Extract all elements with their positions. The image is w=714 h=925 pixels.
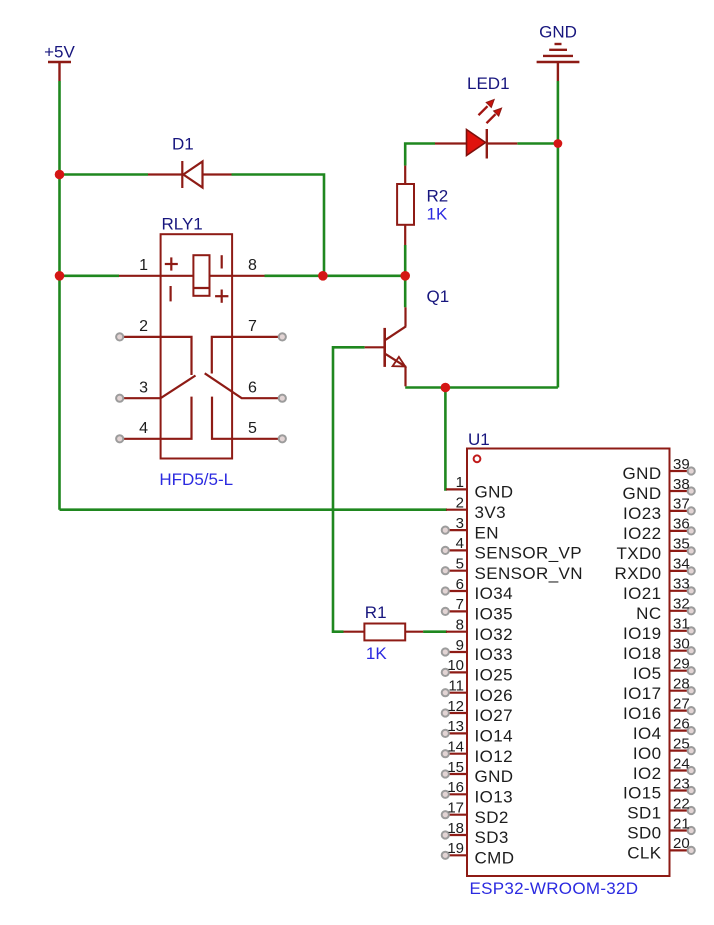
U1 pin 1 GND — [446, 474, 513, 501]
svg-text:1K: 1K — [366, 644, 387, 663]
U1 pin 10 IO25 — [442, 657, 513, 684]
svg-text:25: 25 — [673, 735, 690, 752]
U1 pin 9 IO33 — [442, 637, 513, 664]
svg-text:5: 5 — [248, 420, 257, 437]
svg-text:IO4: IO4 — [633, 724, 662, 743]
wire D1 right — [232, 175, 325, 276]
svg-text:2: 2 — [456, 495, 464, 512]
svg-text:8: 8 — [456, 617, 464, 634]
svg-text:14: 14 — [447, 739, 464, 756]
svg-text:18: 18 — [447, 820, 464, 837]
junction D1/pin8 — [318, 271, 328, 281]
svg-text:D1: D1 — [172, 135, 194, 154]
svg-text:24: 24 — [673, 755, 690, 772]
svg-text:SD3: SD3 — [475, 828, 509, 847]
svg-text:22: 22 — [673, 795, 690, 812]
svg-text:10: 10 — [447, 657, 464, 674]
svg-text:36: 36 — [673, 516, 690, 533]
svg-text:IO13: IO13 — [475, 788, 513, 807]
svg-text:26: 26 — [673, 715, 690, 732]
svg-text:16: 16 — [447, 779, 464, 796]
svg-text:IO27: IO27 — [475, 706, 513, 725]
svg-text:15: 15 — [447, 759, 464, 776]
wire collector rail right — [557, 144, 560, 388]
U1 pin 22 SD1 — [627, 795, 695, 822]
svg-text:CLK: CLK — [627, 844, 662, 863]
resistor R2 — [397, 166, 448, 245]
U1 pin 13 IO14 — [442, 718, 513, 745]
wire +5V rail vertical — [58, 81, 61, 510]
junction R2/collector — [400, 271, 410, 281]
svg-text:EN: EN — [475, 523, 499, 542]
U1 pin 28 IO17 — [623, 676, 695, 703]
relay pin 4 — [116, 397, 191, 443]
svg-text:31: 31 — [673, 616, 690, 633]
U1 pin 5 SENSOR_VN — [442, 556, 583, 583]
IC U1 body — [467, 430, 670, 876]
wire base net — [333, 347, 365, 631]
svg-text:2: 2 — [139, 318, 148, 335]
svg-text:IO5: IO5 — [633, 664, 662, 683]
U1 pin 23 IO15 — [623, 775, 695, 802]
svg-text:GND: GND — [475, 767, 514, 786]
svg-text:34: 34 — [673, 556, 690, 573]
wire D1 left — [60, 173, 149, 176]
wire pin1 row — [60, 274, 120, 277]
svg-text:IO34: IO34 — [475, 584, 513, 603]
svg-text:IO33: IO33 — [475, 645, 513, 664]
relay pin 7 — [212, 318, 286, 374]
relay pin 6 — [205, 373, 286, 402]
svg-text:IO17: IO17 — [623, 684, 661, 703]
svg-text:13: 13 — [447, 718, 464, 735]
svg-text:SENSOR_VP: SENSOR_VP — [475, 544, 583, 563]
svg-text:5: 5 — [456, 556, 464, 573]
power +5V — [44, 43, 75, 82]
wire pin8 row — [265, 274, 406, 277]
svg-text:IO2: IO2 — [633, 764, 662, 783]
U1 pin 27 IO16 — [623, 695, 695, 722]
U1 pin 8 IO32 — [446, 617, 513, 644]
U1 pin 18 SD3 — [442, 820, 509, 847]
U1 pin 3 EN — [442, 515, 499, 542]
U1 pin 29 IO5 — [633, 656, 695, 683]
svg-text:23: 23 — [673, 775, 690, 792]
relay RLY1 — [161, 215, 233, 459]
svg-text:29: 29 — [673, 656, 690, 673]
svg-text:SENSOR_VN: SENSOR_VN — [475, 564, 583, 583]
svg-text:7: 7 — [248, 318, 257, 335]
U1 pin 31 IO19 — [623, 616, 695, 643]
relay coil — [193, 255, 209, 296]
svg-text:35: 35 — [673, 536, 690, 553]
svg-text:IO16: IO16 — [623, 704, 661, 723]
svg-text:Q1: Q1 — [427, 287, 450, 306]
svg-text:3: 3 — [139, 380, 148, 397]
svg-text:RLY1: RLY1 — [162, 215, 203, 234]
svg-text:TXD0: TXD0 — [616, 544, 661, 563]
svg-text:IO18: IO18 — [623, 644, 661, 663]
svg-text:6: 6 — [456, 576, 464, 593]
svg-text:IO19: IO19 — [623, 624, 661, 643]
svg-text:ESP32-WROOM-32D: ESP32-WROOM-32D — [470, 879, 639, 898]
U1 pin 12 IO27 — [442, 698, 513, 725]
junction +5V/pin1 — [55, 271, 65, 281]
svg-text:SD1: SD1 — [627, 804, 661, 823]
relay pin 3 — [116, 376, 195, 402]
diode D1 — [148, 135, 232, 189]
svg-text:28: 28 — [673, 676, 690, 693]
svg-text:GND: GND — [539, 23, 577, 42]
svg-text:R2: R2 — [427, 187, 449, 206]
relay pin 8 lead — [232, 257, 264, 276]
ground GND — [537, 23, 580, 82]
svg-text:IO35: IO35 — [475, 605, 513, 624]
U1 pin 39 GND — [623, 456, 695, 483]
svg-text:11: 11 — [448, 678, 464, 695]
svg-text:9: 9 — [456, 637, 464, 654]
U1 pin 38 GND — [623, 476, 695, 503]
U1 pin 16 IO13 — [442, 779, 513, 806]
U1 pin 14 IO12 — [442, 739, 513, 766]
svg-text:1: 1 — [456, 474, 464, 491]
svg-text:NC: NC — [636, 604, 661, 623]
svg-text:33: 33 — [673, 576, 690, 593]
svg-text:GND: GND — [623, 484, 662, 503]
U1 pin 6 IO34 — [442, 576, 513, 603]
wire GND drop — [557, 81, 560, 144]
svg-text:IO14: IO14 — [475, 727, 513, 746]
svg-text:RXD0: RXD0 — [615, 564, 662, 583]
svg-text:HFD5/5-L: HFD5/5-L — [159, 470, 233, 489]
svg-text:IO0: IO0 — [633, 744, 662, 763]
relay pin 2 — [116, 318, 191, 375]
wire LED left / R2 top — [405, 144, 435, 166]
svg-text:21: 21 — [673, 815, 690, 832]
transistor Q1 — [365, 287, 449, 386]
U1 pin 4 SENSOR_VP — [442, 535, 582, 562]
relay pin 1 lead — [119, 257, 232, 276]
svg-text:3: 3 — [456, 515, 464, 532]
U1 pin 33 IO21 — [623, 576, 695, 603]
resistor R1 — [344, 603, 424, 663]
svg-text:IO23: IO23 — [623, 504, 661, 523]
svg-text:27: 27 — [673, 695, 690, 712]
svg-text:1K: 1K — [427, 205, 448, 224]
wire emitter junction to U1 pin1 — [445, 388, 447, 490]
wire R1 right to U1 pin8 — [423, 630, 447, 633]
svg-text:CMD: CMD — [475, 849, 515, 868]
svg-text:7: 7 — [456, 596, 464, 613]
svg-text:GND: GND — [475, 483, 514, 502]
U1 pin 21 SD0 — [627, 815, 695, 842]
svg-text:IO22: IO22 — [623, 524, 661, 543]
U1 pin 34 RXD0 — [615, 556, 695, 584]
svg-text:IO25: IO25 — [475, 666, 513, 685]
svg-text:IO26: IO26 — [475, 686, 513, 705]
svg-text:LED1: LED1 — [467, 74, 510, 93]
U1 pin 2 3V3 — [446, 495, 506, 522]
U1 pin1 indicator — [474, 455, 481, 462]
svg-text:1: 1 — [139, 257, 148, 274]
svg-text:U1: U1 — [468, 430, 490, 449]
wire R2 bottom to collector — [404, 245, 407, 307]
wire 3V3 rail horizontal — [60, 508, 448, 511]
svg-text:32: 32 — [673, 596, 690, 613]
svg-text:SD2: SD2 — [475, 808, 509, 827]
wire emitter row — [405, 386, 558, 389]
U1 pin 20 CLK — [627, 835, 695, 862]
svg-text:IO21: IO21 — [623, 584, 661, 603]
svg-text:6: 6 — [248, 380, 257, 397]
svg-text:38: 38 — [673, 476, 690, 493]
U1 pin 32 NC — [636, 596, 695, 623]
U1 pin 36 IO22 — [623, 516, 695, 543]
svg-text:30: 30 — [673, 636, 690, 653]
U1 pin 37 IO23 — [623, 496, 695, 523]
svg-text:12: 12 — [447, 698, 464, 715]
svg-text:39: 39 — [673, 456, 690, 473]
svg-text:19: 19 — [447, 840, 464, 857]
LED arrows — [479, 100, 502, 124]
svg-text:37: 37 — [673, 496, 690, 513]
U1 pin 11 IO26 — [442, 678, 513, 705]
svg-text:IO15: IO15 — [623, 784, 661, 803]
relay polarity marks — [165, 255, 229, 303]
svg-text:17: 17 — [447, 800, 464, 817]
svg-text:+5V: +5V — [44, 43, 75, 62]
U1 pin 17 SD2 — [442, 800, 509, 827]
svg-text:4: 4 — [456, 535, 464, 552]
svg-text:IO12: IO12 — [475, 747, 513, 766]
svg-text:SD0: SD0 — [627, 824, 661, 843]
U1 pin 26 IO4 — [633, 715, 695, 742]
relay pin 5 — [212, 397, 286, 443]
junction +5V/D1 — [55, 170, 65, 180]
U1 pin 35 TXD0 — [616, 536, 694, 563]
LED LED1 — [435, 74, 517, 159]
U1 pin 25 IO0 — [633, 735, 695, 762]
U1 pin 30 IO18 — [623, 636, 695, 663]
svg-text:IO32: IO32 — [475, 625, 513, 644]
wire LED right — [517, 142, 558, 145]
svg-text:R1: R1 — [365, 603, 387, 622]
junction emitter/GND — [441, 383, 451, 393]
U1 pin 7 IO35 — [442, 596, 513, 623]
junction LED/GND — [554, 139, 563, 148]
U1 pin 19 CMD — [442, 840, 515, 867]
svg-text:20: 20 — [673, 835, 690, 852]
svg-text:3V3: 3V3 — [475, 503, 506, 522]
svg-text:8: 8 — [248, 257, 257, 274]
U1 pin 15 GND — [442, 759, 514, 786]
svg-text:4: 4 — [139, 420, 148, 437]
U1 pin 24 IO2 — [633, 755, 695, 783]
svg-text:GND: GND — [623, 464, 662, 483]
